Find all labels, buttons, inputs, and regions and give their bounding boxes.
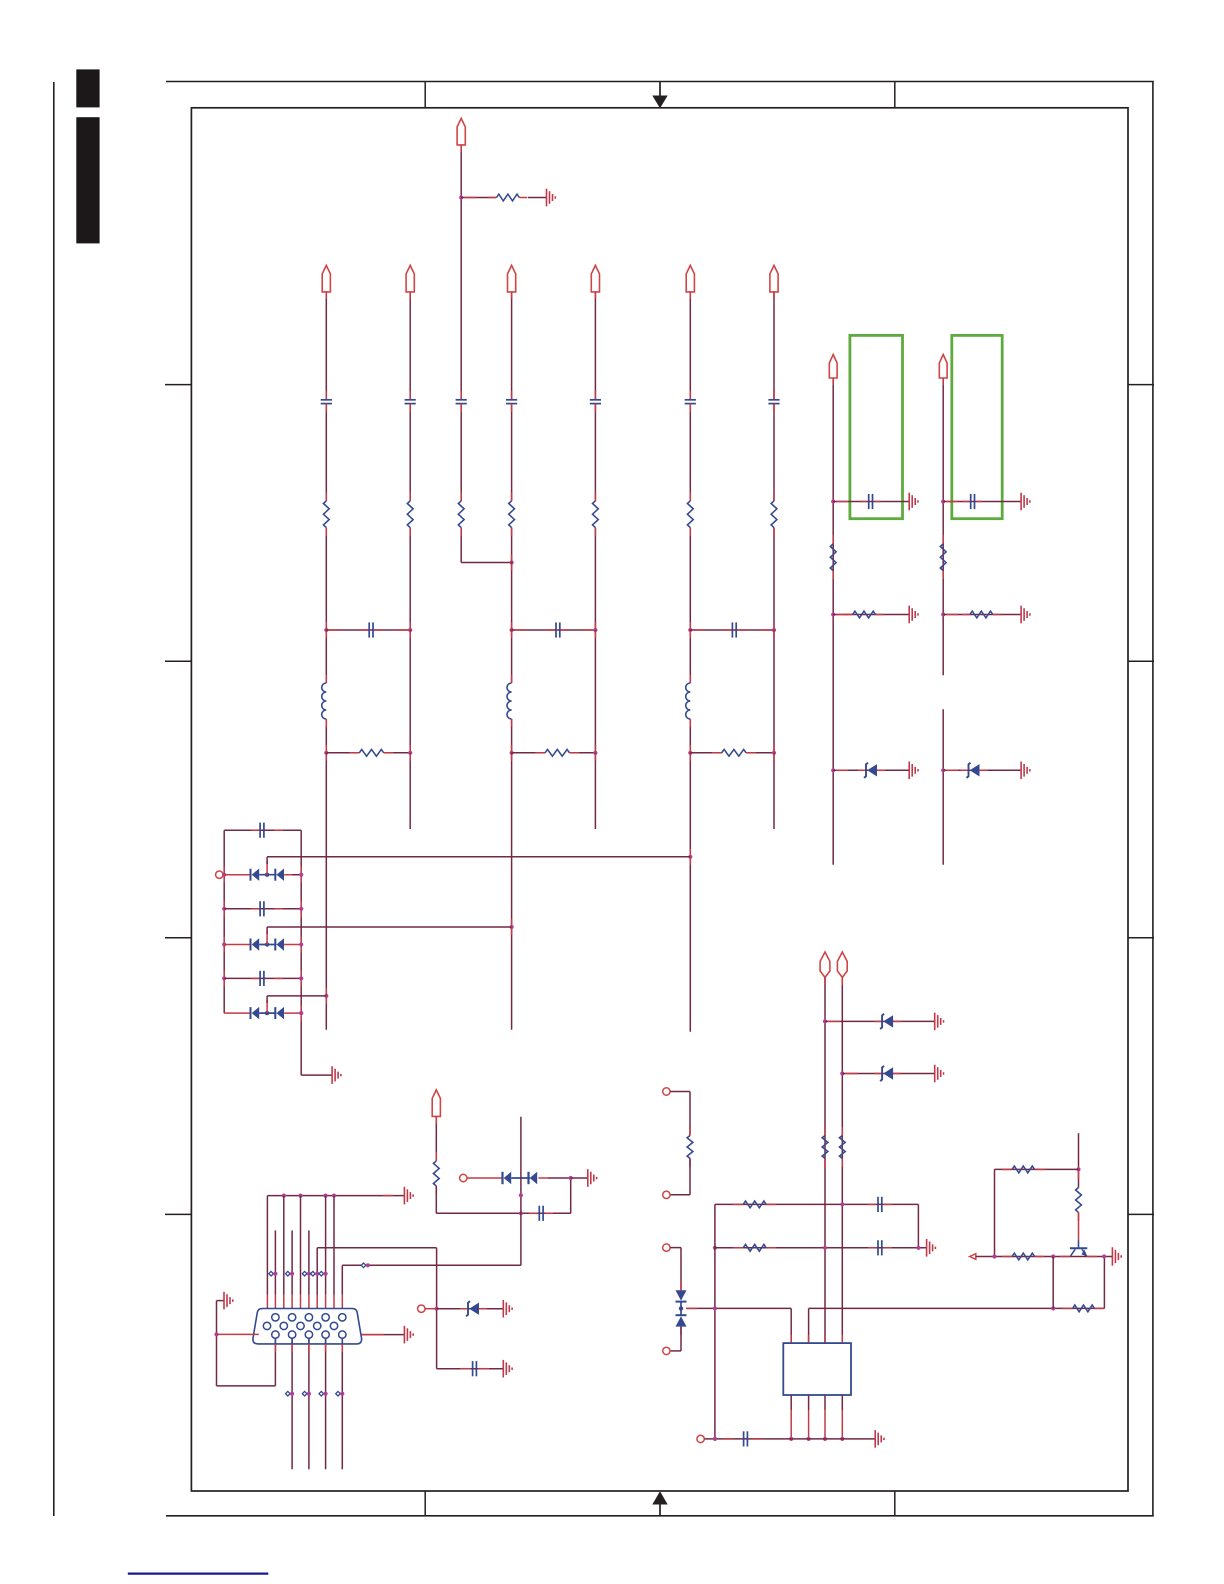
resistor R2: [323, 501, 329, 528]
connector J5 shell: [253, 1309, 362, 1344]
node: [569, 1176, 573, 1180]
capacitor C12: [260, 901, 264, 916]
wire: [460, 404, 462, 501]
node A: [76, 69, 99, 107]
node: [332, 1194, 336, 1198]
wire: [570, 752, 596, 754]
wire: [773, 630, 775, 753]
pin 7: [824, 1395, 826, 1439]
wire: [833, 501, 909, 503]
wire: [409, 745, 411, 761]
wire: [325, 292, 327, 400]
capacitor C20: [539, 1206, 543, 1221]
wire: [670, 1092, 690, 1136]
wire: [333, 1196, 335, 1323]
wire: [841, 977, 843, 1343]
resistor R5: [509, 501, 515, 528]
wire: [511, 745, 513, 761]
wire: [461, 197, 527, 199]
capacitor C19: [473, 1361, 477, 1376]
wire: [715, 1247, 927, 1249]
wire: [773, 753, 775, 829]
wire: [362, 1334, 405, 1336]
wire: [746, 752, 774, 754]
power port P8: [829, 355, 837, 379]
wire: [326, 629, 410, 631]
capacitor C11: [260, 823, 264, 838]
node: [831, 612, 835, 616]
wire: [435, 1186, 437, 1213]
node E: [652, 1491, 667, 1516]
pin 7: [280, 1322, 287, 1329]
wire: [511, 622, 513, 638]
pin 6: [263, 1322, 270, 1329]
wire: [223, 867, 225, 883]
wire: [689, 719, 691, 753]
diode D7: [864, 763, 877, 778]
wire: [424, 1491, 426, 1516]
node: [823, 1246, 827, 1250]
wire: [773, 404, 775, 501]
wire: [300, 937, 302, 953]
wire: [291, 1230, 293, 1314]
ground: [1021, 762, 1030, 780]
ground: [909, 493, 918, 511]
wire: [325, 630, 327, 683]
wire: [325, 1196, 327, 1314]
wire: [1152, 82, 1154, 1516]
wire: [384, 752, 411, 754]
diode D3 D4: [251, 938, 285, 950]
wire: [317, 1247, 436, 1249]
wire: [917, 1204, 919, 1247]
capacitor C6: [685, 400, 696, 404]
node: [823, 1019, 827, 1023]
wire: [165, 660, 191, 662]
transistor Q1: [1070, 1241, 1087, 1257]
wire: [894, 1491, 896, 1516]
wire: [773, 622, 775, 638]
resistor R17: [839, 1136, 845, 1159]
wire: [325, 745, 327, 761]
power port P9: [939, 355, 947, 379]
wire: [715, 1203, 919, 1205]
capacitor C3: [456, 400, 467, 404]
node M: [286, 1391, 295, 1396]
wire: [341, 1338, 343, 1469]
connector pin J3: [697, 1435, 704, 1442]
wire: [594, 753, 596, 829]
wire: [435, 1116, 437, 1161]
wire: [570, 1178, 572, 1213]
ground: [1112, 1247, 1121, 1265]
power port P4: [591, 265, 599, 292]
diode D8: [967, 763, 980, 778]
wire: [224, 829, 301, 831]
node M: [286, 1271, 295, 1276]
node: [1076, 1167, 1080, 1171]
connector pin J2-1: [663, 1088, 670, 1095]
ground: [503, 1300, 512, 1318]
wire: [341, 1265, 343, 1314]
resistor R22: [1012, 1166, 1035, 1173]
power port P3: [508, 265, 516, 292]
node M: [319, 1271, 328, 1276]
pin 15: [339, 1331, 346, 1338]
wire: [409, 630, 411, 753]
wire: [773, 528, 775, 630]
wire: [165, 384, 191, 386]
node: [324, 1194, 328, 1198]
ground: [909, 606, 918, 624]
capacitor C17: [878, 1240, 882, 1255]
wire: [842, 1073, 934, 1075]
wire: [409, 753, 411, 829]
capacitor C8: [369, 622, 373, 637]
wire: [511, 404, 513, 501]
node: [299, 976, 303, 980]
wire: [594, 622, 596, 638]
wire: [224, 908, 301, 910]
wire: [511, 753, 513, 1030]
wire: [894, 82, 896, 108]
wire: [512, 629, 596, 631]
wire: [460, 145, 462, 400]
ground: [547, 189, 556, 207]
wire: [300, 970, 302, 986]
wire: [325, 719, 327, 753]
wire: [942, 709, 944, 865]
node: [831, 499, 835, 503]
pin 10: [330, 1322, 337, 1329]
wire: [301, 1074, 332, 1076]
wire: [300, 830, 302, 1075]
node: [298, 1194, 302, 1198]
node: [840, 1437, 844, 1441]
wire: [790, 1308, 792, 1343]
node D: [652, 82, 667, 109]
node: [823, 1437, 827, 1441]
node M: [302, 1271, 311, 1276]
node: [222, 907, 226, 911]
node: [789, 1437, 793, 1441]
node: [840, 1071, 844, 1075]
node: [519, 1211, 523, 1215]
ground: [224, 1292, 233, 1310]
capacitor C5: [590, 400, 601, 404]
node F1: [970, 1254, 976, 1260]
node: [282, 1194, 286, 1198]
wire: [689, 753, 691, 1032]
node: [222, 873, 226, 877]
wire: [409, 292, 411, 400]
wire: [809, 1307, 1105, 1309]
node M: [269, 1271, 278, 1276]
power port P11: [837, 952, 847, 977]
connector pin J2-2: [663, 1191, 670, 1198]
capacitor C7: [768, 400, 779, 404]
node: [688, 628, 692, 632]
ground: [404, 1187, 413, 1205]
node: [772, 751, 776, 755]
ground: [588, 1169, 597, 1187]
inductor L1: [322, 683, 327, 719]
node: [807, 1437, 811, 1441]
diode D13 D14: [503, 1172, 538, 1184]
op-amp U1: [783, 1343, 851, 1395]
wire: [436, 1212, 570, 1214]
node: [299, 1011, 303, 1015]
pin 2: [288, 1314, 295, 1321]
wire: [689, 404, 691, 501]
wire: [424, 82, 426, 108]
wire: [520, 1117, 522, 1266]
resistor R14: [940, 544, 946, 571]
wire: [594, 292, 596, 400]
node: [324, 751, 328, 755]
node: [916, 1246, 920, 1250]
wire: [308, 1338, 310, 1469]
node M: [319, 1391, 328, 1396]
wire: [1128, 937, 1154, 939]
ground: [909, 762, 918, 780]
node N3: [324, 994, 328, 998]
pin 9: [314, 1322, 321, 1329]
power port P7: [457, 118, 465, 144]
wire: [689, 745, 691, 761]
wire: [267, 1195, 404, 1197]
node: [713, 1306, 717, 1310]
ground: [927, 1239, 936, 1257]
wire: [832, 378, 834, 865]
ground: [332, 1066, 341, 1084]
resistor R16: [822, 1136, 828, 1159]
node: [713, 1246, 717, 1250]
wire: [976, 1256, 1113, 1258]
pin 1: [272, 1314, 279, 1321]
wire: [217, 1333, 259, 1335]
wire: [460, 528, 462, 563]
wire: [511, 555, 513, 571]
pin 12: [288, 1331, 295, 1338]
wire: [690, 752, 721, 754]
ground: [503, 1360, 512, 1378]
power port P2: [406, 265, 414, 292]
wire: [714, 1204, 716, 1439]
pin 5: [339, 1314, 346, 1321]
wire: [326, 752, 359, 754]
wire: [1128, 1213, 1154, 1215]
wire: [300, 1196, 302, 1323]
resistor R9: [359, 749, 383, 756]
node: [299, 907, 303, 911]
wire: [512, 752, 545, 754]
pin 13: [305, 1331, 312, 1338]
node: [772, 628, 776, 632]
diode D1 D2: [251, 869, 285, 881]
wire: [1052, 1257, 1054, 1309]
resistor R25: [433, 1161, 439, 1186]
node: [593, 628, 597, 632]
wire: [833, 769, 909, 771]
wire: [223, 970, 225, 986]
resistor R13: [853, 611, 876, 618]
node M: [311, 1271, 320, 1276]
ground: [935, 1013, 944, 1031]
power port P5: [686, 265, 694, 292]
green box Z2: [952, 335, 1002, 518]
node B: [76, 117, 99, 243]
wire: [571, 1177, 588, 1179]
wire: [1103, 1257, 1105, 1309]
node: [713, 1437, 717, 1441]
resistor R1: [497, 194, 520, 201]
wire: [511, 292, 513, 400]
wire: [223, 901, 225, 917]
wire: [316, 1248, 318, 1323]
green box Z1: [850, 335, 903, 518]
wire: [291, 1338, 293, 1469]
node: [1102, 1254, 1106, 1258]
power port P12: [432, 1090, 440, 1117]
wire: [808, 1308, 810, 1343]
resistor R23: [1076, 1188, 1082, 1213]
wire: [267, 926, 512, 928]
wire: [342, 1264, 521, 1266]
wire: [409, 404, 411, 501]
node C: [191, 108, 1128, 1491]
wire: [511, 919, 513, 935]
wire: [670, 1327, 681, 1351]
node: [593, 751, 597, 755]
node: [510, 628, 514, 632]
capacitor C9: [556, 622, 560, 637]
node: [831, 768, 835, 772]
wire: [300, 901, 302, 917]
resistor R3: [407, 501, 413, 528]
wire: [437, 1368, 504, 1370]
power port P6: [770, 265, 778, 292]
node: [324, 628, 328, 632]
wire: [425, 1308, 503, 1310]
node: [519, 1193, 523, 1197]
wire: [325, 404, 327, 501]
wire: [995, 1168, 1079, 1170]
wire: [1078, 1133, 1080, 1221]
resistor R24: [1012, 1253, 1035, 1260]
connector pin J2-4: [663, 1347, 670, 1354]
wire: [528, 197, 547, 199]
wire: [686, 1307, 791, 1309]
resistor R19: [743, 1244, 766, 1251]
wire: [300, 1005, 302, 1021]
wire: [511, 630, 513, 683]
capacitor C16: [878, 1197, 882, 1212]
wire: [217, 1385, 276, 1387]
wire: [308, 1230, 310, 1314]
node M: [302, 1391, 311, 1396]
node: [299, 942, 303, 946]
connector pin J6: [418, 1305, 425, 1312]
wire: [53, 82, 55, 1516]
wire: [128, 1572, 268, 1574]
ground: [935, 1065, 944, 1083]
node: [941, 499, 945, 503]
node N4: [510, 925, 514, 929]
wire: [325, 622, 327, 638]
power port P10: [820, 952, 830, 977]
wire: [267, 995, 326, 997]
wire: [942, 378, 944, 675]
pin 8: [841, 1395, 843, 1439]
wire: [165, 937, 191, 939]
wire: [224, 1012, 301, 1014]
resistor R6: [593, 501, 599, 528]
wire: [1078, 1212, 1080, 1240]
capacitor C10: [732, 622, 736, 637]
wire: [274, 1338, 276, 1386]
wire: [325, 988, 327, 1004]
node: [941, 612, 945, 616]
node: [222, 942, 226, 946]
wire: [325, 753, 327, 1030]
power port P1: [322, 265, 330, 292]
wire: [165, 1213, 191, 1215]
ground: [1021, 493, 1030, 511]
wire: [274, 1230, 276, 1314]
pin 14: [322, 1331, 329, 1338]
wire: [217, 1300, 225, 1302]
node: [299, 873, 303, 877]
resistor R11: [722, 749, 746, 756]
wire: [223, 937, 225, 953]
resistor R15: [970, 611, 993, 618]
node: [688, 751, 692, 755]
wire: [773, 292, 775, 400]
node N1: [459, 195, 463, 199]
wire: [511, 528, 513, 630]
node N2: [510, 560, 514, 564]
wire: [670, 1158, 690, 1194]
node: [408, 751, 412, 755]
capacitor C1: [321, 400, 332, 404]
wire: [773, 745, 775, 761]
node: [435, 1307, 439, 1311]
resistor R4: [458, 501, 464, 528]
wire: [705, 1438, 876, 1440]
wire: [224, 874, 301, 876]
resistor R21: [1073, 1305, 1095, 1312]
capacitor C18: [744, 1431, 748, 1446]
wire: [689, 849, 691, 865]
connector pin J1-1: [216, 871, 223, 878]
node: [222, 976, 226, 980]
pin 8: [297, 1322, 304, 1329]
wire: [166, 1515, 1154, 1517]
resistor R7: [687, 501, 693, 528]
connector pin J2-3: [663, 1244, 670, 1251]
wire: [690, 629, 774, 631]
wire: [325, 1338, 327, 1469]
wire: [689, 622, 691, 638]
resistor R12: [830, 544, 836, 571]
wire: [1128, 384, 1154, 386]
capacitor C2: [405, 400, 416, 404]
ground: [875, 1430, 884, 1448]
wire: [824, 977, 826, 1343]
wire: [266, 1196, 268, 1323]
wire: [943, 501, 1021, 503]
